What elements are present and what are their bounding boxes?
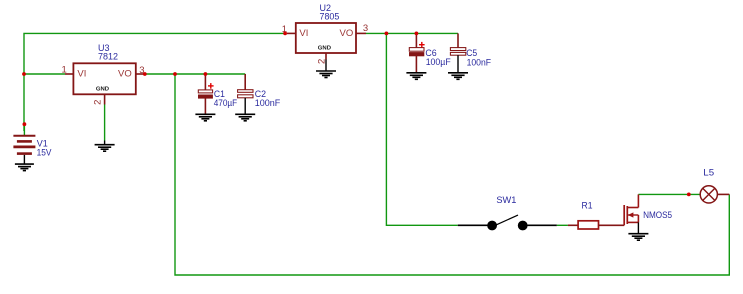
ground under C1 xyxy=(195,114,215,121)
C6 polarity plus mark xyxy=(419,42,425,48)
ground under C6 xyxy=(406,73,426,80)
svg-text:7805: 7805 xyxy=(320,12,340,23)
svg-text:VO: VO xyxy=(118,68,132,79)
svg-text:VO: VO xyxy=(340,28,354,39)
junction node on +12V rail at C1 xyxy=(204,72,208,76)
svg-text:15V: 15V xyxy=(37,148,52,159)
svg-text:1: 1 xyxy=(62,65,67,76)
junction node on +12V rail at bottom-loop branch xyxy=(173,72,177,76)
transistor NMOS5 (N-channel MOSFET) xyxy=(624,194,672,225)
svg-text:GND: GND xyxy=(318,46,331,52)
ground under NMOS5 xyxy=(628,234,648,241)
svg-text:GND: GND xyxy=(96,87,109,93)
resistor R1 xyxy=(568,200,624,229)
wire U3 VO to C2 (net +12V) xyxy=(145,73,245,75)
ground under C2 xyxy=(235,114,255,121)
junction node on +5V rail at C6 xyxy=(415,32,419,36)
ground under C5 xyxy=(448,73,468,80)
wire U2 VO rail to C5 (net +5V) xyxy=(366,32,458,34)
ground under U2 xyxy=(316,60,336,78)
junction node on +5V rail at switch branch xyxy=(385,32,389,36)
capacitor C5 100nF xyxy=(450,33,491,72)
svg-text:L5: L5 xyxy=(703,167,714,178)
svg-text:470µF: 470µF xyxy=(214,98,238,109)
C1 polarity plus mark xyxy=(208,83,214,89)
svg-text:2: 2 xyxy=(93,100,104,105)
svg-text:100µF: 100µF xyxy=(426,57,451,68)
battery V1 15V xyxy=(13,124,52,159)
svg-text:VI: VI xyxy=(299,28,308,39)
wire V1 top rail to U2 VI (net +15V) xyxy=(24,33,286,131)
junction node at U2 VI pin xyxy=(283,32,287,36)
wire branch to U3 VI xyxy=(24,73,65,75)
wire SW1 to R1 xyxy=(557,224,568,226)
junction node at battery V1 positive terminal xyxy=(23,122,27,126)
regulator U2 7805 xyxy=(282,3,368,64)
capacitor C1 470uF electrolytic xyxy=(198,74,237,114)
lamp L5 xyxy=(700,167,729,203)
ground under U3 xyxy=(95,141,115,152)
ground under battery V1 xyxy=(15,155,34,171)
svg-text:VI: VI xyxy=(77,68,86,79)
capacitor C2 100nF xyxy=(238,74,281,114)
svg-text:R1: R1 xyxy=(582,200,593,211)
switch SW1 xyxy=(458,195,557,231)
svg-text:3: 3 xyxy=(363,23,368,34)
wire U3 pin2 to ground xyxy=(104,105,106,141)
svg-text:100nF: 100nF xyxy=(467,57,492,68)
wire NMOS5 drain to lamp L5 xyxy=(638,193,700,195)
regulator U3 7812 xyxy=(62,43,145,105)
capacitor C6 100uF electrolytic xyxy=(409,33,451,72)
wire +12V down, along bottom and up to lamp L5 right terminal xyxy=(175,74,729,275)
wire NMOS5 source to ground xyxy=(637,222,639,233)
junction node on +15V rail at U3 VI branch xyxy=(22,72,26,76)
svg-text:SW1: SW1 xyxy=(496,195,516,206)
junction node at U3 VO pin xyxy=(143,72,147,76)
svg-text:7812: 7812 xyxy=(98,52,118,63)
svg-text:100nF: 100nF xyxy=(255,98,281,109)
wire +5V rail down to switch SW1 xyxy=(386,33,457,225)
junction node on drain wire at lamp L5 xyxy=(687,193,691,197)
svg-text:NMOS5: NMOS5 xyxy=(643,210,672,221)
